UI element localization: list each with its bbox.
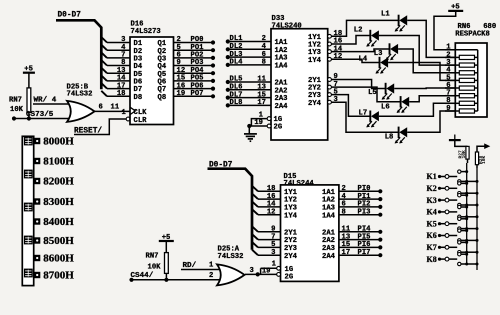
labels PO0-PO7 with terminal nodes xyxy=(191,36,216,98)
wires D15 outputs to PI0-PI7 xyxy=(339,191,380,255)
switch K1 xyxy=(427,172,458,181)
switch K5 throw contacts to buses xyxy=(458,217,479,230)
svg-text:6: 6 xyxy=(99,104,103,112)
svg-text:2Y2: 2Y2 xyxy=(284,237,297,245)
svg-text:11: 11 xyxy=(342,226,351,234)
wire bus taps to D15 Y pins xyxy=(252,186,281,255)
svg-text:PI3: PI3 xyxy=(358,208,371,216)
svg-text:74LS244: 74LS244 xyxy=(284,180,315,188)
legend character 输 xyxy=(24,236,33,245)
switch K7 throw contacts to buses xyxy=(458,241,479,254)
svg-text:2G: 2G xyxy=(285,273,294,281)
legend character 器 xyxy=(24,203,33,212)
svg-text:1A1: 1A1 xyxy=(322,189,336,197)
connector pin 8700H xyxy=(34,272,40,278)
svg-text:6: 6 xyxy=(342,201,346,209)
svg-text:RN7: RN7 xyxy=(146,253,159,261)
svg-text:CS73/5: CS73/5 xyxy=(26,111,54,119)
svg-text:4: 4 xyxy=(262,43,267,51)
svg-text:10K: 10K xyxy=(461,150,467,159)
wire CS73/5 net xyxy=(12,116,73,120)
wires DL1-DL8 nets into D33 inputs xyxy=(226,35,271,107)
svg-text:15: 15 xyxy=(342,241,351,249)
wire LED L4 to respack pin 5 xyxy=(388,63,455,81)
svg-text:K6: K6 xyxy=(427,231,437,240)
wire D33 pin to LED L4 row xyxy=(331,59,379,62)
pin numbers 18 16 14 12 9 7 5 3 (D33 outputs) xyxy=(334,30,343,104)
svg-text:16: 16 xyxy=(267,193,276,201)
pin numbers 2 5 6 9 12 15 16 19 (D16 outputs) xyxy=(177,36,186,98)
svg-text:K5: K5 xyxy=(427,219,437,228)
svg-text:1A1: 1A1 xyxy=(275,39,289,47)
svg-text:5: 5 xyxy=(271,241,275,249)
svg-text:1: 1 xyxy=(209,262,214,270)
connector pin 8100H xyxy=(34,158,40,164)
svg-text:D8: D8 xyxy=(134,94,143,102)
svg-text:8: 8 xyxy=(262,59,266,67)
switch K3 xyxy=(427,196,458,205)
ground symbol below D33 xyxy=(244,134,257,141)
buffer U D33 74LS240 xyxy=(271,15,328,140)
svg-text:RESPACK8: RESPACK8 xyxy=(455,30,490,38)
connector pin 8300H xyxy=(34,198,40,204)
svg-text:74LS32: 74LS32 xyxy=(218,253,244,261)
svg-text:WR/ 4: WR/ 4 xyxy=(34,97,57,105)
svg-text:2Y1: 2Y1 xyxy=(284,229,298,237)
power +5 (pull-up RN7 top-left) xyxy=(23,66,35,88)
svg-text:1Y4: 1Y4 xyxy=(308,57,322,65)
inverter bubbles on D15 enables xyxy=(277,266,281,276)
svg-text:2: 2 xyxy=(262,35,266,43)
svg-text:6: 6 xyxy=(262,51,266,59)
svg-text:4: 4 xyxy=(342,193,347,201)
LED L3 xyxy=(374,43,398,60)
buffer U D15 74LS244 xyxy=(281,173,339,282)
svg-text:2G: 2G xyxy=(274,124,283,132)
pin numbers 18 16 14 12 9 7 5 3 (D15 outputs) xyxy=(267,185,276,257)
LED L8 xyxy=(385,127,408,144)
switch K1 throw contacts to buses xyxy=(458,170,479,183)
wire LED L1 to respack pin 2 xyxy=(407,20,455,57)
wire LED L5 to respack pin 6 xyxy=(394,87,455,90)
LED L6 xyxy=(381,96,409,113)
svg-text:DL7: DL7 xyxy=(230,91,243,99)
svg-text:1: 1 xyxy=(259,111,264,119)
svg-text:PI6: PI6 xyxy=(358,241,371,249)
svg-text:RN7: RN7 xyxy=(9,97,22,105)
legend character 码 xyxy=(24,170,33,179)
legend character 出 xyxy=(24,269,33,278)
wire D33 pin to LED L6 row xyxy=(331,87,400,102)
svg-text:D0-D7: D0-D7 xyxy=(58,12,82,20)
latch U D16 74LS273 xyxy=(130,21,174,125)
svg-text:DL8: DL8 xyxy=(230,99,243,107)
resistor R27 10K (left, rotated) xyxy=(458,146,470,163)
svg-text:Q8: Q8 xyxy=(158,94,167,102)
svg-text:8700H: 8700H xyxy=(43,270,74,282)
svg-text:1: 1 xyxy=(122,109,127,117)
svg-text:2A4: 2A4 xyxy=(275,103,289,111)
svg-text:PI4: PI4 xyxy=(358,226,372,234)
svg-text:PO7: PO7 xyxy=(191,90,204,98)
switch K4 throw contacts to buses xyxy=(458,205,479,218)
svg-text:8300H: 8300H xyxy=(43,196,74,208)
svg-text:1A4: 1A4 xyxy=(275,63,289,71)
svg-text:9: 9 xyxy=(446,105,450,113)
svg-text:PI1: PI1 xyxy=(358,193,372,201)
svg-text:DL2: DL2 xyxy=(230,43,243,51)
switch K8 xyxy=(427,255,458,264)
wire OR output pin 3 to D15 enables 1 and 19 xyxy=(245,261,277,277)
inverter bubbles on D33 outputs xyxy=(328,34,332,104)
svg-text:2: 2 xyxy=(209,272,213,280)
legend character 译 xyxy=(24,137,33,146)
svg-text:DL1: DL1 xyxy=(230,35,244,43)
wire LED L3 to respack pin 4 xyxy=(398,49,455,73)
wire D33 pin to LED L8 row xyxy=(331,102,398,132)
wire LED L8 to respack pin 9 xyxy=(407,111,455,132)
LED L4 xyxy=(359,55,389,73)
svg-text:CS44/: CS44/ xyxy=(131,272,154,280)
svg-text:18: 18 xyxy=(267,185,276,193)
LED L2 xyxy=(354,27,379,47)
switch K7 xyxy=(427,243,458,252)
svg-text:2A4: 2A4 xyxy=(322,253,336,261)
svg-text:1Y1: 1Y1 xyxy=(284,189,298,197)
svg-text:12: 12 xyxy=(267,208,276,216)
connector pin 8500H xyxy=(34,237,40,243)
wire ground bus (switch common left) xyxy=(466,163,468,265)
svg-text:PI0: PI0 xyxy=(358,185,371,193)
svg-text:3: 3 xyxy=(271,249,275,257)
svg-text:74LS32: 74LS32 xyxy=(67,91,93,99)
pin numbers 3 4 7 8 13 14 17 18 (D16 inputs) xyxy=(117,36,126,98)
svg-text:PI2: PI2 xyxy=(358,201,371,209)
wires D33 enable pins 1 and 19 to ground xyxy=(247,111,267,133)
connector pin 8000H xyxy=(34,138,40,144)
node CS73/5 junction at RN7 bottom xyxy=(27,116,31,120)
svg-text:3: 3 xyxy=(250,267,254,275)
svg-text:8400H: 8400H xyxy=(43,216,74,228)
svg-text:RD/: RD/ xyxy=(183,262,197,270)
wire supply bus (switch common right) xyxy=(476,168,478,270)
svg-text:1A4: 1A4 xyxy=(322,212,336,220)
svg-text:74LS240: 74LS240 xyxy=(272,23,302,31)
wire OR output pin 6 to D16 CLK pin 11 xyxy=(95,104,131,112)
svg-text:CLR: CLR xyxy=(134,117,148,125)
node CS44/ junction at RN7 bottom xyxy=(164,278,168,282)
resistor RN7 10K (bottom pull-up) xyxy=(146,253,169,280)
svg-text:PI7: PI7 xyxy=(358,249,371,257)
wire RD/ net (pin 1) xyxy=(181,262,223,280)
wire D33 pin to LED L5 row xyxy=(331,80,385,89)
switch K3 throw contacts to buses xyxy=(458,194,479,207)
switch K2 throw contacts to buses xyxy=(458,182,479,195)
pin numbers 2 4 6 8 11 13 15 17 (D15 right) xyxy=(342,185,351,257)
svg-text:8100H: 8100H xyxy=(43,156,74,168)
svg-text:K7: K7 xyxy=(427,243,437,252)
svg-text:2A2: 2A2 xyxy=(275,87,288,95)
op-amp-style OR gate D25:B 74LS32 xyxy=(67,84,95,122)
connector pin 8400H xyxy=(34,218,40,224)
svg-text:7: 7 xyxy=(271,233,275,241)
respack pin stubs and numbers 1-9 xyxy=(445,44,455,113)
svg-text:10K: 10K xyxy=(481,155,487,164)
svg-text:8500H: 8500H xyxy=(43,235,74,247)
op-amp-style OR gate D25:A 74LS32 xyxy=(217,246,245,286)
switch K6 xyxy=(427,231,458,240)
svg-text:8000H: 8000H xyxy=(43,136,74,148)
svg-text:K4: K4 xyxy=(427,208,437,217)
svg-text:14: 14 xyxy=(267,201,276,209)
wire D33 pin to LED L2 row xyxy=(331,36,370,45)
svg-text:1A3: 1A3 xyxy=(275,55,288,63)
svg-text:PI5: PI5 xyxy=(358,233,371,241)
wire bus taps to D16 D1-D8 pins xyxy=(101,37,130,96)
svg-text:DL6: DL6 xyxy=(230,84,243,92)
power +5 (LED supply, top-right) xyxy=(434,4,463,50)
svg-text:11: 11 xyxy=(111,104,120,112)
switch K2 xyxy=(427,184,458,193)
svg-text:K3: K3 xyxy=(427,196,437,205)
svg-text:2A2: 2A2 xyxy=(322,237,335,245)
svg-text:10K: 10K xyxy=(10,106,24,114)
svg-text:19: 19 xyxy=(254,119,263,127)
resistor R28 10K (right, rotated) xyxy=(475,152,487,168)
wire LED L6 to respack pin 7 xyxy=(409,96,455,102)
svg-text:DL4: DL4 xyxy=(230,59,244,67)
LED L1 xyxy=(381,11,407,32)
svg-text:18: 18 xyxy=(117,90,126,98)
power bar (switch pull-up supply) xyxy=(449,135,468,147)
svg-text:10K: 10K xyxy=(148,264,162,272)
svg-text:L1: L1 xyxy=(381,11,390,19)
wire LED L7 to respack pin 8 xyxy=(379,103,455,116)
bus D0-D7 (bottom) xyxy=(208,161,253,249)
svg-text:2A3: 2A3 xyxy=(322,245,335,253)
svg-text:13: 13 xyxy=(342,233,351,241)
svg-text:19: 19 xyxy=(177,90,186,98)
power +5 (pull-up RN7 bottom) xyxy=(159,234,174,253)
svg-text:74LS273: 74LS273 xyxy=(131,28,161,36)
svg-text:L7: L7 xyxy=(359,109,368,117)
svg-text:19: 19 xyxy=(262,268,271,276)
svg-text:17: 17 xyxy=(257,99,266,107)
wire WR/ net (pin 4) xyxy=(33,103,73,105)
svg-text:K2: K2 xyxy=(427,184,437,193)
svg-text:1: 1 xyxy=(272,261,277,269)
switch K5 xyxy=(427,219,458,228)
wires D16 outputs Q1-Q8 to PO0-PO7 xyxy=(174,43,213,97)
wire D33 pin to LED L3 row xyxy=(331,49,389,52)
svg-text:L5: L5 xyxy=(368,89,377,97)
svg-text:1Y3: 1Y3 xyxy=(284,205,297,213)
arrow +5 off-page (right) xyxy=(477,143,490,152)
svg-text:K1: K1 xyxy=(427,172,437,181)
svg-text:2: 2 xyxy=(342,185,346,193)
svg-text:K8: K8 xyxy=(427,255,437,264)
svg-text:2Y4: 2Y4 xyxy=(284,253,298,261)
wire CS44/ net xyxy=(129,278,223,282)
svg-text:1A3: 1A3 xyxy=(322,205,335,213)
svg-text:1A2: 1A2 xyxy=(275,47,288,55)
LED L5 xyxy=(368,83,394,100)
svg-text:DL5: DL5 xyxy=(230,76,243,84)
svg-text:2A1: 2A1 xyxy=(275,80,289,88)
svg-text:13: 13 xyxy=(257,84,266,92)
wire D33 pin to LED L1 row xyxy=(331,20,398,36)
connector pin 8200H xyxy=(34,178,40,184)
switch K6 throw contacts to buses xyxy=(458,229,479,242)
svg-text:8: 8 xyxy=(342,208,346,216)
svg-text:1A2: 1A2 xyxy=(322,197,335,205)
svg-text:L3: L3 xyxy=(374,50,383,58)
svg-text:CLK: CLK xyxy=(134,109,148,117)
inverter bubble on D16 CLR pin xyxy=(126,117,130,121)
inverter bubbles on D33 enables xyxy=(267,117,271,128)
svg-text:L4: L4 xyxy=(359,55,368,63)
svg-text:8600H: 8600H xyxy=(43,253,74,265)
svg-text:2A1: 2A1 xyxy=(322,229,336,237)
svg-text:1Y4: 1Y4 xyxy=(284,212,298,220)
wire LED L2 to respack pin 3 xyxy=(379,36,455,66)
svg-text:L2: L2 xyxy=(354,27,363,35)
bus D0-D7 (top) xyxy=(56,12,101,90)
LED L7 xyxy=(359,109,379,127)
wire D33 pin to LED L7 row xyxy=(331,95,370,117)
labels PI0-PI7 with terminal nodes xyxy=(358,185,383,257)
wire RESET/ to CLR pin 1 xyxy=(74,109,127,135)
svg-text:8200H: 8200H xyxy=(43,176,74,188)
svg-text:DL3: DL3 xyxy=(230,51,243,59)
svg-text:1Y2: 1Y2 xyxy=(284,197,297,205)
decoder output legend box xyxy=(22,136,33,285)
svg-text:2Y4: 2Y4 xyxy=(308,100,322,108)
resistor RN7 10K (top-left pull-up) xyxy=(9,88,31,119)
svg-text:L8: L8 xyxy=(385,134,394,142)
connector pin 8600H xyxy=(34,255,40,261)
svg-text:15: 15 xyxy=(257,91,266,99)
svg-text:9: 9 xyxy=(271,226,275,234)
svg-text:L6: L6 xyxy=(381,103,390,111)
switch K8 throw contacts to buses xyxy=(458,253,479,266)
svg-text:11: 11 xyxy=(257,76,266,84)
resistor network RN6 680 RESPACK8 xyxy=(455,23,496,117)
svg-text:2Y3: 2Y3 xyxy=(284,245,297,253)
switch K4 xyxy=(427,208,458,217)
svg-text:2A3: 2A3 xyxy=(275,95,288,103)
svg-text:17: 17 xyxy=(342,249,351,257)
